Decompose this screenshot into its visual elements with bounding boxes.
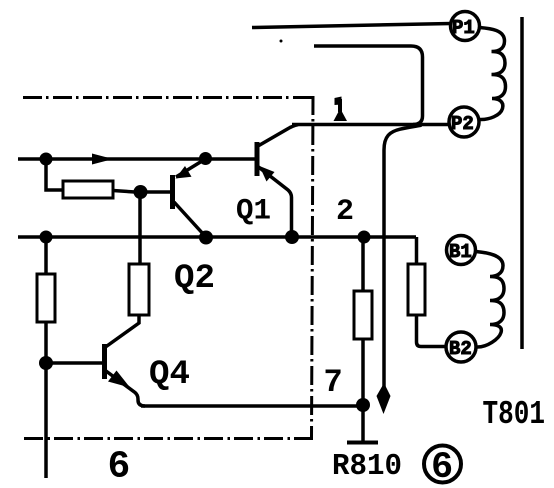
svg-text:R810: R810 <box>332 449 402 484</box>
svg-text:Q2: Q2 <box>174 260 215 298</box>
svg-text:Q4: Q4 <box>149 356 190 394</box>
svg-text:P2: P2 <box>451 113 474 135</box>
svg-text:2: 2 <box>336 195 354 229</box>
svg-text:7: 7 <box>324 364 343 401</box>
svg-text:B1: B1 <box>449 241 472 263</box>
svg-text:6: 6 <box>108 446 131 488</box>
svg-text:B2: B2 <box>449 338 472 360</box>
svg-text:Q1: Q1 <box>236 195 271 229</box>
svg-text:6: 6 <box>431 447 453 488</box>
svg-text:P1: P1 <box>452 17 475 39</box>
svg-text:T801: T801 <box>483 396 546 433</box>
